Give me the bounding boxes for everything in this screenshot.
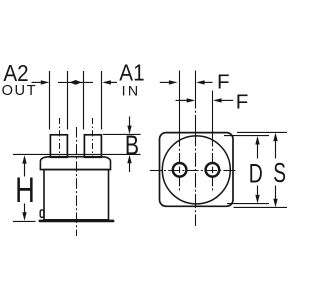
top view square outline [160,133,234,207]
top view horizontal centerline [150,170,238,172]
top view can circle [162,136,230,204]
dimension F2 right arrow [213,98,233,102]
hole OUT vertical centerline [179,71,181,191]
dimension A2-A1 middle double arrowhead [58,80,93,85]
top view vertical centerline [195,71,197,227]
svg-text:S: S [273,158,286,188]
pin1 bushing [50,135,67,158]
extension line pin1 left edge [49,71,51,130]
dimension S lower arrow [273,186,277,208]
dimension S bottom extension line [234,206,288,208]
dimension F2 left arrow [176,98,196,102]
dimension S top extension line [237,131,287,133]
extension line pin2 left edge [83,71,85,130]
svg-text:F: F [217,71,230,94]
dimension D lower arrow [255,186,259,204]
long extension line (cap top level, H top / B bottom) [13,153,141,155]
solder seam bump [40,210,44,217]
cap (top insulator) [40,157,110,170]
svg-text:A1: A1 [119,59,144,86]
base flange [39,220,115,223]
svg-text:F: F [236,90,249,113]
can body [44,170,109,220]
dimension B upper arrow [127,117,131,135]
dimension A2 arrow [32,80,50,84]
dimension D top extension line [224,135,269,137]
pin hole IN [206,163,220,177]
dimension A1 arrow [102,80,117,84]
extension line pin1 right edge [67,71,69,130]
dimension B top line (pin top level) [103,133,141,135]
dimension F1 right arrow [196,80,212,84]
hole IN vertical centerline [212,91,214,191]
dimension H bottom extension line [13,220,36,222]
pin hole OUT [173,163,187,177]
svg-text:B: B [125,131,139,161]
dimension D bottom extension line [227,203,269,205]
dimension B lower arrow [127,155,131,172]
svg-text:OUT: OUT [2,83,37,99]
dimension S upper arrow [273,133,277,159]
dimension F1 left arrow [160,80,178,84]
svg-text:D: D [249,158,263,188]
extension line pin2 right edge [101,71,103,130]
svg-text:IN: IN [122,83,141,99]
dimension H lower arrow [22,204,26,221]
pin1 lead centerline [59,118,61,156]
pin2 bushing [84,135,101,158]
left view centerline [76,127,78,236]
pin2 lead centerline [92,118,94,156]
dimension D upper arrow [255,136,259,159]
dimension H upper arrow [22,155,26,176]
